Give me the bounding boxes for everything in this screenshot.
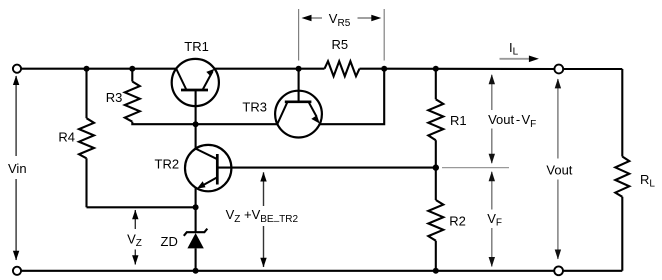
gray extension line at divider — [442, 167, 509, 169]
wire R4 bottom to node — [87, 206, 196, 208]
zener diode ZD — [184, 207, 208, 270]
VR5 left arrow — [311, 17, 322, 19]
resistor R4 — [79, 69, 94, 208]
VR5 extension line right — [383, 9, 385, 61]
svg-text:VZ +VBE_TR2: VZ +VBE_TR2 — [226, 207, 299, 225]
wire TR2 base to divider — [217, 167, 435, 169]
node A (TR1 base / R3 / TR3 collector / TR2 collector) — [193, 121, 199, 127]
VR5 right arrow — [358, 17, 372, 19]
input terminal — [13, 65, 21, 73]
resistor R5 — [325, 61, 360, 76]
bottom rail wire — [21, 270, 622, 272]
output terminal — [554, 65, 563, 74]
wire TR3 base — [298, 69, 300, 102]
node R1 top — [433, 66, 439, 72]
svg-text:Vin: Vin — [8, 161, 27, 176]
node divider (R1/R2/TR2 base) — [433, 164, 439, 170]
transistor TR3 — [275, 91, 322, 138]
svg-text:R3: R3 — [106, 90, 123, 105]
node R5 right — [381, 66, 387, 72]
resistor R2 — [428, 168, 443, 271]
node R2 bottom — [433, 268, 439, 274]
VF dimension arrow — [491, 172, 493, 267]
svg-text:R1: R1 — [450, 113, 467, 128]
svg-text:RL: RL — [640, 172, 655, 190]
Vin dimension arrow — [15, 76, 17, 260]
resistor RL — [615, 157, 629, 197]
IL arrow — [500, 58, 532, 60]
node ZD bottom — [193, 268, 199, 274]
svg-text:TR3: TR3 — [242, 99, 267, 114]
resistor R3 — [125, 69, 278, 125]
wire TR2 collector — [195, 124, 197, 148]
wire TR3 emitter to R5 right — [320, 69, 385, 125]
VZ dimension arrow — [134, 210, 136, 265]
bottom-left terminal — [13, 267, 21, 275]
svg-text:VR5: VR5 — [329, 11, 351, 29]
svg-text:VF: VF — [487, 211, 502, 229]
svg-text:R5: R5 — [332, 37, 349, 52]
bottom-right terminal — [554, 266, 563, 275]
Vout-VF dimension arrow — [491, 75, 493, 163]
node TR2 emitter / R4 / ZD — [193, 204, 199, 210]
svg-text:Vout-VF: Vout-VF — [488, 112, 536, 130]
top rail wire — [21, 68, 622, 70]
node R5 left — [296, 66, 302, 72]
transistor TR2 — [185, 145, 231, 191]
Vout dimension arrow — [557, 79, 559, 259]
svg-text:ZD: ZD — [161, 234, 178, 249]
svg-text:R2: R2 — [449, 214, 466, 229]
VZ+VBE_TR2 dimension arrow — [263, 172, 265, 267]
svg-text:R4: R4 — [58, 130, 75, 145]
wire TR2 emitter — [195, 188, 197, 208]
svg-text:IL: IL — [509, 40, 519, 58]
svg-text:TR2: TR2 — [155, 157, 180, 172]
node R4 top — [84, 66, 90, 72]
svg-text:Vout: Vout — [546, 162, 572, 177]
right branch wire — [621, 69, 623, 271]
VR5 extension line left — [298, 9, 300, 61]
wire TR1 base — [195, 90, 197, 124]
transistor TR1 — [172, 59, 219, 106]
node R3 top — [129, 66, 135, 72]
resistor R1 — [428, 69, 443, 168]
svg-text:VZ: VZ — [127, 231, 142, 249]
svg-text:TR1: TR1 — [184, 39, 209, 54]
